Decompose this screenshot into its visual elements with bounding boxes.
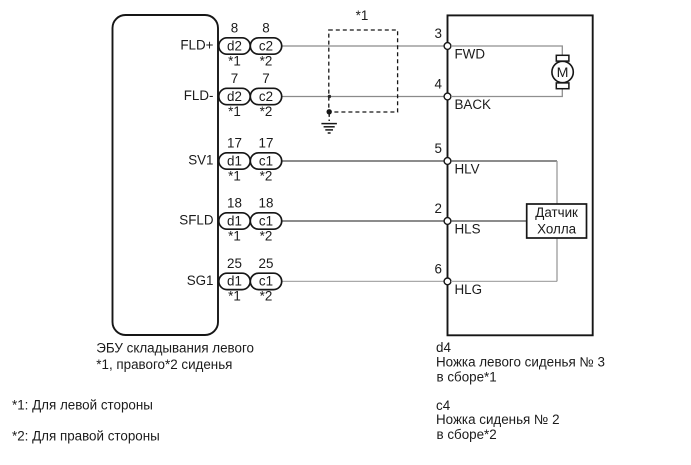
svg-text:d2: d2	[227, 89, 242, 104]
label *1 above dashed box	[356, 8, 369, 23]
footnote *1	[12, 397, 153, 412]
dashed wire stem to ground	[328, 114, 330, 122]
terminal circle pin 4	[444, 93, 451, 100]
pin number 8 of c2	[262, 21, 269, 36]
svg-text:*1: Для левой стороны: *1: Для левой стороны	[12, 397, 153, 412]
svg-text:*1: *1	[228, 289, 241, 304]
svg-text:18: 18	[259, 196, 274, 211]
svg-text:HLG: HLG	[455, 282, 483, 297]
wire SG1 to pin 6	[282, 280, 448, 282]
note *2 under c1	[260, 228, 273, 243]
svg-text:25: 25	[259, 256, 274, 271]
wire pin 6 to hall sensor (HLG)	[451, 280, 557, 282]
connector d2 pin 7 (*1)	[219, 88, 250, 104]
svg-text:18: 18	[227, 196, 242, 211]
svg-text:c2: c2	[259, 38, 273, 53]
note *1 under d1	[228, 228, 241, 243]
svg-text:7: 7	[262, 71, 269, 86]
svg-text:*2: Для правой стороны: *2: Для правой стороны	[12, 428, 160, 443]
pin number 7 of d2	[231, 71, 238, 86]
svg-text:Датчик: Датчик	[535, 205, 578, 220]
svg-text:BACK: BACK	[455, 97, 492, 112]
svg-text:SFLD: SFLD	[179, 213, 214, 228]
wire FWD to motor M1	[451, 46, 562, 56]
wire FLD- to pin 4	[282, 96, 448, 98]
svg-text:17: 17	[259, 136, 274, 151]
pin label HLG	[455, 282, 483, 297]
svg-text:HLS: HLS	[455, 222, 481, 237]
svg-text:*2: *2	[260, 53, 273, 68]
terminal circle pin 5	[444, 158, 451, 165]
caption: c4 connector	[436, 398, 560, 442]
svg-text:в сборе*1: в сборе*1	[437, 369, 497, 384]
motor M1 bottom brush cap	[556, 83, 569, 89]
svg-text:d1: d1	[227, 274, 242, 289]
svg-text:8: 8	[231, 21, 238, 36]
note *1 under d2	[228, 104, 241, 119]
ground symbol	[321, 124, 337, 133]
hall sensor box (Датчик Холла)	[527, 204, 587, 238]
svg-text:c4: c4	[436, 398, 451, 413]
svg-text:FLD-: FLD-	[184, 88, 214, 103]
svg-text:2: 2	[435, 201, 442, 216]
connector d1 pin 25 (*1)	[219, 273, 250, 289]
wire pin 2 to hall sensor (HLS)	[451, 220, 527, 222]
svg-text:d2: d2	[227, 38, 242, 53]
svg-text:4: 4	[435, 77, 443, 92]
pin number 6 on right box	[435, 262, 442, 277]
note *2 under c1	[260, 168, 273, 183]
wire motor M1 to BACK	[451, 88, 562, 96]
ECU box U1 (seat folding ECU)	[113, 15, 219, 335]
note *2 under c2	[260, 104, 273, 119]
note *1 under d1	[228, 289, 241, 304]
wire hall sensor to HLG	[556, 238, 558, 281]
pin label SFLD on ECU	[179, 213, 214, 228]
svg-text:*1: *1	[228, 228, 241, 243]
svg-text:6: 6	[435, 262, 442, 277]
connector c2 pin 8 (*2)	[250, 38, 281, 54]
svg-text:c2: c2	[259, 89, 273, 104]
pin number 7 of c2	[262, 71, 269, 86]
svg-text:8: 8	[262, 21, 269, 36]
svg-text:*2: *2	[260, 289, 273, 304]
junction dot on FLD- wire	[328, 95, 331, 98]
pin label BACK	[455, 97, 492, 112]
wire pin 5 to hall sensor (HLV)	[451, 160, 557, 162]
connector d1 pin 18 (*1)	[219, 213, 250, 229]
seat leg assembly box (right connector block)	[448, 15, 593, 335]
svg-text:17: 17	[227, 136, 242, 151]
svg-text:7: 7	[231, 71, 238, 86]
pin number 3 on right box	[435, 26, 442, 41]
pin label SV1 on ECU	[188, 153, 213, 168]
svg-text:ЭБУ складывания левого: ЭБУ складывания левого	[96, 340, 254, 355]
note *2 under c2	[260, 53, 273, 68]
wire FLD+ to pin 3	[282, 45, 448, 47]
svg-text:FWD: FWD	[455, 47, 486, 62]
pin label HLV	[455, 162, 480, 177]
footnote *2	[12, 428, 160, 443]
svg-text:FLD+: FLD+	[180, 38, 213, 53]
pin number 4 on right box	[435, 77, 443, 92]
terminal circle pin 3	[444, 43, 451, 50]
wire SFLD to pin 2	[282, 220, 448, 222]
motor M1 circle	[552, 61, 573, 82]
connector d2 pin 8 (*1)	[219, 38, 250, 54]
svg-text:*1: *1	[228, 104, 241, 119]
note *1 under d2	[228, 53, 241, 68]
pin number 5 on right box	[435, 141, 442, 156]
svg-text:Ножка сиденья № 2: Ножка сиденья № 2	[436, 412, 560, 427]
svg-text:d1: d1	[227, 153, 242, 168]
svg-text:SG1: SG1	[187, 273, 214, 288]
connector d1 pin 17 (*1)	[219, 153, 250, 169]
caption: ECU name	[96, 340, 254, 372]
pin label FLD+ on ECU	[180, 38, 213, 53]
pin number 18 of d1	[227, 196, 242, 211]
svg-text:*1, правого*2 сиденья: *1, правого*2 сиденья	[96, 357, 232, 372]
pin number 17 of c1	[259, 136, 274, 151]
svg-text:*2: *2	[260, 228, 273, 243]
motor M1 letter	[557, 65, 569, 81]
motor M1 top brush cap	[556, 55, 569, 61]
svg-text:c1: c1	[259, 274, 273, 289]
pin label FLD- on ECU	[184, 88, 214, 103]
wire SV1 to pin 5	[282, 160, 448, 162]
svg-text:Холла: Холла	[537, 222, 577, 237]
terminal circle pin 2	[444, 218, 451, 225]
dashed option box *1	[329, 30, 398, 112]
svg-text:c1: c1	[259, 213, 273, 228]
note *1 under d1	[228, 168, 241, 183]
pin number 25 of c1	[259, 256, 274, 271]
svg-text:*2: *2	[260, 168, 273, 183]
connector c1 pin 18 (*2)	[250, 213, 281, 229]
connector c1 pin 17 (*2)	[250, 153, 281, 169]
svg-text:M: M	[557, 65, 569, 81]
svg-text:d4: d4	[436, 340, 451, 355]
svg-text:c1: c1	[259, 153, 273, 168]
junction dot at ground branch	[327, 109, 332, 114]
svg-text:*1: *1	[356, 8, 369, 23]
wire HLV to hall sensor	[556, 161, 558, 204]
pin label SG1 on ECU	[187, 273, 214, 288]
pin number 17 of d1	[227, 136, 242, 151]
svg-text:*2: *2	[260, 104, 273, 119]
pin number 8 of d2	[231, 21, 238, 36]
pin label HLS	[455, 222, 481, 237]
svg-text:*1: *1	[228, 168, 241, 183]
terminal circle pin 6	[444, 278, 451, 285]
svg-text:25: 25	[227, 256, 242, 271]
svg-text:d1: d1	[227, 213, 242, 228]
svg-text:5: 5	[435, 141, 442, 156]
note *2 under c1	[260, 289, 273, 304]
svg-text:Ножка левого сиденья № 3: Ножка левого сиденья № 3	[436, 354, 605, 369]
svg-text:SV1: SV1	[188, 153, 213, 168]
pin number 18 of c1	[259, 196, 274, 211]
svg-text:в сборе*2: в сборе*2	[437, 427, 497, 442]
svg-text:3: 3	[435, 26, 442, 41]
svg-text:*1: *1	[228, 53, 241, 68]
pin number 25 of d1	[227, 256, 242, 271]
pin label FWD	[455, 47, 486, 62]
connector c1 pin 25 (*2)	[250, 273, 281, 289]
svg-text:HLV: HLV	[455, 162, 480, 177]
pin number 2 on right box	[435, 201, 442, 216]
caption: d4 connector	[436, 340, 605, 384]
connector c2 pin 7 (*2)	[250, 88, 281, 104]
